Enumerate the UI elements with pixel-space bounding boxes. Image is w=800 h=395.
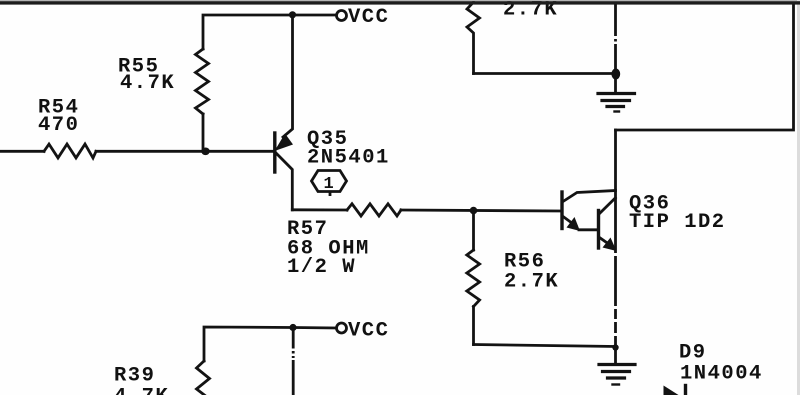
svg-text:470: 470 — [38, 114, 79, 137]
svg-text:1/2 W: 1/2 W — [287, 256, 356, 279]
svg-text:VCC: VCC — [348, 6, 389, 29]
svg-text:4.7K: 4.7K — [114, 386, 169, 395]
svg-text:1: 1 — [324, 175, 336, 194]
svg-text:TIP 1D2: TIP 1D2 — [629, 211, 726, 234]
svg-text:2.7K: 2.7K — [504, 271, 559, 294]
svg-text:4.7K: 4.7K — [120, 72, 175, 95]
svg-text:1N4004: 1N4004 — [680, 363, 763, 386]
svg-text:R39: R39 — [114, 365, 155, 388]
svg-text:2N5401: 2N5401 — [307, 147, 390, 170]
svg-text:D9: D9 — [679, 342, 707, 365]
svg-text:VCC: VCC — [348, 320, 389, 343]
